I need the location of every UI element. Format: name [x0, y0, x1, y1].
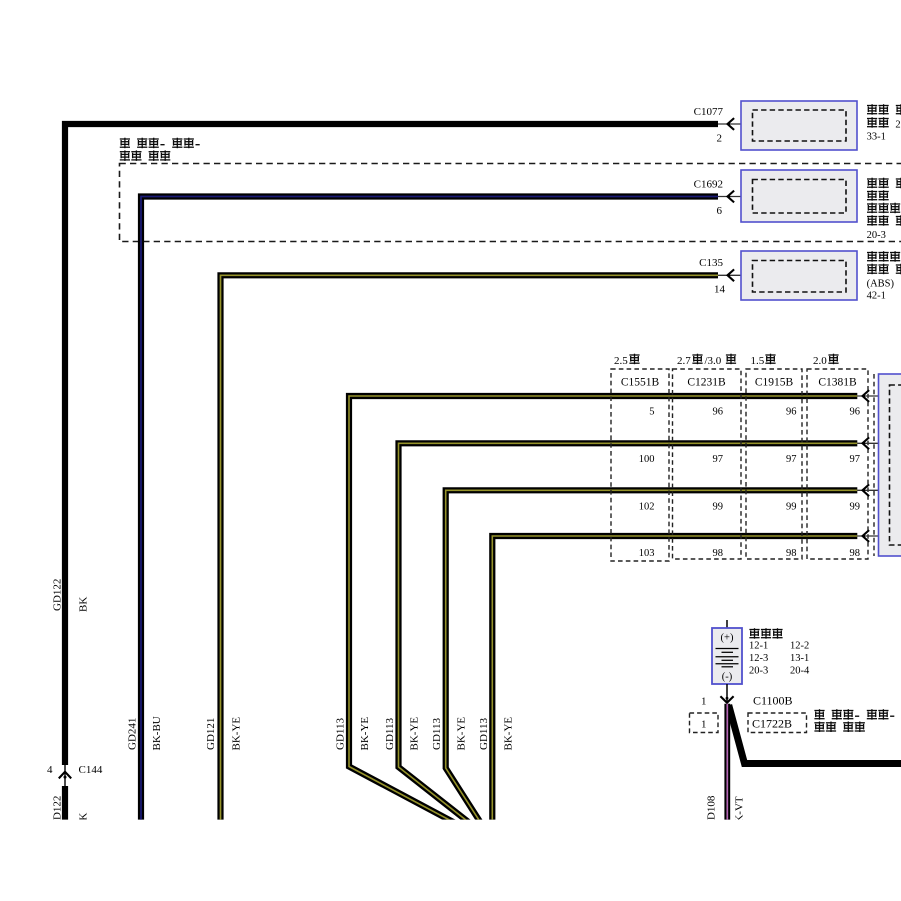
- component box (DC/DC converter control module): [741, 170, 857, 222]
- wire GD113 BK-YE (row 1): [349, 396, 857, 824]
- pins 96/97/99/98 (C1231B): [713, 407, 724, 560]
- svg-text:5: 5: [649, 407, 654, 418]
- svg-text:20-4: 20-4: [790, 666, 810, 677]
- svg-text:1: 1: [701, 719, 707, 731]
- svg-text:BK-YE: BK-YE: [456, 717, 468, 751]
- svg-text:BK-YE: BK-YE: [503, 717, 515, 751]
- battery terminal stub: [726, 620, 728, 628]
- connector C1692 arrow: [728, 191, 735, 203]
- svg-text:BK-BU: BK-BU: [151, 716, 163, 750]
- svg-text:96: 96: [713, 407, 724, 418]
- connector C135 lead line: [718, 274, 753, 276]
- svg-text:C1077: C1077: [694, 106, 724, 118]
- PCM lead line row 1: [857, 395, 889, 397]
- svg-text:2.0: 2.0: [813, 355, 827, 367]
- battery negative lead: [726, 684, 728, 703]
- PCM lead line row 3: [857, 489, 889, 491]
- svg-text:42-1: 42-1: [867, 291, 886, 302]
- text 防抱死: [867, 251, 900, 262]
- header 1.5升: [751, 354, 776, 367]
- svg-text:C1915B: C1915B: [755, 377, 794, 389]
- text 控制 模(块): [867, 215, 901, 226]
- svg-text:2: 2: [717, 133, 723, 145]
- connector C1692 lead line: [718, 196, 753, 198]
- PCM arrow row 2: [863, 437, 870, 449]
- svg-text:BK: BK: [78, 813, 90, 828]
- svg-text:99: 99: [786, 502, 797, 513]
- wire GD113 BK-YE (row 3): [446, 490, 858, 824]
- svg-text:C1692: C1692: [694, 179, 723, 191]
- svg-text:GD122: GD122: [52, 796, 64, 828]
- svg-text:2.7: 2.7: [677, 355, 691, 367]
- svg-text:/3.0: /3.0: [705, 355, 722, 367]
- svg-text:2.5: 2.5: [614, 355, 628, 367]
- region label 带 自动- 起动- 停车 系统: [120, 138, 200, 149]
- svg-text:14: 14: [714, 284, 726, 296]
- dashed box C1231B column: [673, 369, 742, 559]
- svg-text:100: 100: [639, 454, 655, 465]
- svg-text:1.5: 1.5: [751, 355, 765, 367]
- svg-text:102: 102: [639, 502, 655, 513]
- svg-text:98: 98: [713, 548, 724, 559]
- PCM lead line row 4: [857, 535, 889, 537]
- svg-text:96: 96: [850, 407, 861, 418]
- dashed box C1722B: [748, 713, 807, 733]
- wire GD122 BK (thick black, top-left L): [65, 124, 718, 765]
- wire GD241 BK-BU: [141, 197, 718, 825]
- svg-text:12-3: 12-3: [749, 653, 768, 664]
- svg-text:12-1: 12-1: [749, 641, 768, 652]
- svg-text:99: 99: [713, 502, 724, 513]
- header 2.7升/3.0升: [677, 354, 736, 367]
- svg-text:GD108: GD108: [706, 795, 718, 828]
- svg-text:20-3: 20-3: [749, 666, 768, 677]
- svg-text:GD113: GD113: [431, 718, 443, 750]
- extra dashed divider line: [873, 374, 875, 556]
- text 换流器: [867, 203, 900, 214]
- svg-text:103: 103: [639, 548, 655, 559]
- svg-text:1: 1: [701, 696, 707, 708]
- svg-text:13-1: 13-1: [790, 653, 809, 664]
- label 蓄电池: [749, 628, 782, 639]
- dashed option region: with auto start-stop system: [120, 164, 901, 242]
- battery box: [712, 628, 742, 684]
- svg-text:C135: C135: [699, 257, 723, 269]
- connector C135 arrow: [728, 269, 735, 281]
- text 直流 至: [867, 178, 901, 189]
- battery plates: [716, 649, 739, 667]
- svg-text:4: 4: [47, 764, 53, 776]
- svg-text:20-3: 20-3: [867, 230, 886, 241]
- svg-text:(-): (-): [722, 672, 733, 683]
- header 2.5升: [614, 354, 640, 367]
- svg-text:BK: BK: [78, 597, 90, 612]
- pins 96/97/99/98 (C1381B): [850, 407, 861, 560]
- dashed box C1915B column: [746, 369, 802, 559]
- svg-text:C1381B: C1381B: [818, 377, 857, 389]
- component box (ABS module): [741, 251, 857, 300]
- svg-text:33-1: 33-1: [867, 132, 886, 143]
- dashed box C1381B column: [807, 369, 868, 559]
- svg-text:GD241: GD241: [127, 718, 139, 750]
- pins 96/97/99/98 (C1915B): [786, 407, 797, 560]
- header 2.0升: [813, 354, 839, 367]
- text 电机 2: [867, 117, 901, 130]
- svg-text:97: 97: [850, 454, 861, 465]
- svg-text:GD113: GD113: [384, 718, 396, 750]
- inline connector C144 symbol: [59, 765, 71, 786]
- dashed box C1551B column: [611, 369, 669, 561]
- svg-text:99: 99: [850, 502, 861, 513]
- text 制动 系(统): [867, 264, 901, 275]
- svg-text:BK-VT: BK-VT: [734, 796, 746, 830]
- text 带 自动- 起动- (battery): [814, 709, 894, 720]
- wire GD121 BK-YE: [221, 275, 719, 824]
- module box PCM (right edge): [879, 374, 901, 556]
- connector C1077 arrow: [728, 118, 735, 130]
- svg-text:C144: C144: [79, 764, 103, 776]
- wire GD108 BK-VT: [724, 704, 730, 824]
- battery ground cable (thick black): [729, 705, 901, 764]
- connector arrow down: [720, 696, 733, 703]
- svg-text:BK-YE: BK-YE: [231, 717, 243, 751]
- svg-text:2: 2: [895, 120, 900, 131]
- dashed pin box 1: [690, 713, 719, 733]
- pins 5/100/102/103: [639, 407, 655, 560]
- svg-text:C1551B: C1551B: [621, 377, 660, 389]
- svg-text:12-2: 12-2: [790, 641, 809, 652]
- svg-text:BK-YE: BK-YE: [359, 717, 371, 751]
- svg-text:6: 6: [717, 205, 723, 217]
- svg-text:C1100B: C1100B: [753, 694, 793, 708]
- svg-text:(+): (+): [721, 633, 734, 644]
- svg-text:98: 98: [786, 548, 797, 559]
- PCM arrow row 3: [863, 484, 870, 496]
- battery page refs 12-1 12-2 / 12-3 13-1 / 20-3 20-4: [749, 641, 810, 677]
- svg-text:C1722B: C1722B: [752, 717, 792, 731]
- svg-text:(ABS): (ABS): [867, 279, 895, 290]
- svg-text:97: 97: [786, 454, 797, 465]
- svg-text:97: 97: [713, 454, 724, 465]
- svg-text:96: 96: [786, 407, 797, 418]
- wire GD122 BK below C144: [62, 786, 68, 824]
- svg-text:GD121: GD121: [205, 718, 217, 750]
- wire GD113 BK-YE (row 2): [399, 443, 858, 824]
- svg-text:GD113: GD113: [478, 718, 490, 750]
- svg-text:GD122: GD122: [52, 579, 64, 611]
- wire GD113 BK-YE (row 4): [492, 536, 857, 824]
- text 冷却 风(扇): [867, 104, 901, 115]
- svg-text:C1231B: C1231B: [687, 377, 726, 389]
- PCM arrow row 4: [863, 530, 870, 542]
- connector C1077 lead line: [718, 123, 753, 125]
- PCM lead line row 2: [857, 442, 889, 444]
- svg-text:GD113: GD113: [335, 718, 347, 750]
- text 停车 系统 (battery): [814, 722, 865, 733]
- component box (cooling fan motor 2): [741, 101, 857, 150]
- PCM arrow row 1: [863, 390, 870, 402]
- svg-text:BK-YE: BK-YE: [409, 717, 421, 751]
- svg-text:98: 98: [850, 548, 861, 559]
- text 直流: [867, 190, 889, 201]
